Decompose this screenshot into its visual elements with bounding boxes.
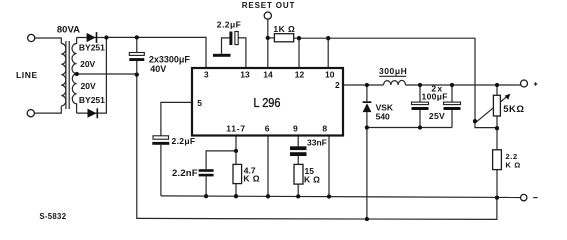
svg-text:5: 5: [197, 98, 202, 108]
svg-text:13: 13: [240, 70, 250, 80]
svg-text:L 296: L 296: [254, 95, 281, 110]
svg-text:2.2nF: 2.2nF: [172, 168, 198, 179]
svg-text:20V: 20V: [80, 59, 95, 69]
svg-text:2.2μF: 2.2μF: [217, 20, 241, 30]
svg-text:14: 14: [263, 70, 273, 80]
svg-text:BY251: BY251: [79, 95, 105, 105]
svg-text:2.2μF: 2.2μF: [172, 136, 196, 146]
svg-text:9: 9: [293, 124, 298, 134]
svg-text:10: 10: [325, 70, 335, 80]
svg-text:40V: 40V: [150, 64, 166, 74]
svg-text:11-7: 11-7: [226, 124, 246, 134]
svg-text:300μH: 300μH: [379, 66, 407, 76]
svg-text:K Ω: K Ω: [304, 175, 320, 185]
svg-text:25V: 25V: [429, 111, 445, 121]
svg-text:RESET OUT: RESET OUT: [242, 1, 295, 10]
svg-text:2: 2: [335, 80, 340, 90]
svg-text:LINE: LINE: [16, 70, 38, 80]
svg-text:20V: 20V: [81, 81, 96, 91]
svg-text:6: 6: [265, 124, 270, 134]
svg-text:100μF: 100μF: [422, 92, 448, 102]
svg-text:33nF: 33nF: [307, 138, 327, 148]
svg-text:540: 540: [376, 112, 390, 122]
svg-text:BY251: BY251: [79, 43, 105, 53]
svg-text:80VA: 80VA: [57, 24, 80, 35]
svg-text:K Ω: K Ω: [243, 173, 260, 183]
svg-text:8: 8: [322, 124, 327, 134]
svg-text:S-5832: S-5832: [39, 212, 66, 221]
svg-text:1K Ω: 1K Ω: [273, 24, 295, 34]
svg-text:K Ω: K Ω: [506, 161, 521, 170]
svg-text:3: 3: [204, 70, 209, 80]
svg-text:5KΩ: 5KΩ: [503, 104, 524, 115]
svg-text:12: 12: [295, 70, 305, 80]
